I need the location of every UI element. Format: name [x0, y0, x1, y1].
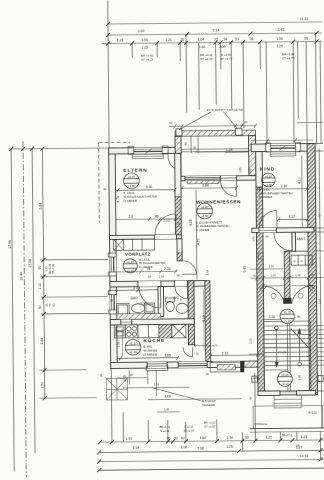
- svg-text:4.28: 4.28: [189, 219, 193, 226]
- entrance door right: [291, 286, 313, 304]
- VORPLATZ to WOHNEN door: [183, 261, 197, 275]
- terrace projection hatched band: [175, 130, 256, 136]
- svg-text:92: 92: [110, 298, 114, 302]
- svg-text:7.98: 7.98: [197, 447, 204, 451]
- svg-text:3.14: 3.14: [212, 28, 219, 32]
- X box: [172, 324, 186, 338]
- svg-text:+1.60: +1.60: [283, 319, 291, 323]
- svg-text:2.10: 2.10: [222, 351, 229, 355]
- svg-text:B: LINOL: B: LINOL: [259, 187, 271, 191]
- window in wohnen top wall: [185, 176, 221, 181]
- svg-text:3.23: 3.23: [248, 338, 252, 344]
- svg-text:88: 88: [155, 215, 159, 219]
- svg-text:D: ABRIEB: D: ABRIEB: [259, 195, 272, 199]
- svg-text:53: 53: [235, 37, 239, 41]
- svg-text:3.92: 3.92: [137, 29, 144, 33]
- svg-text:ST+2.35: ST+2.35: [51, 263, 55, 274]
- window opening in ELTERN top wall: [134, 147, 163, 153]
- WOHNEN terrace door swing: [220, 180, 236, 196]
- wohnen south window with radiator: [213, 361, 245, 367]
- ELTERN door: [155, 214, 176, 235]
- svg-text:95: 95: [297, 315, 301, 319]
- svg-text:1.91: 1.91: [126, 437, 133, 441]
- WC sink: [176, 303, 188, 313]
- svg-text:ALS NICHT: ALS NICHT: [202, 399, 216, 403]
- terrace door opening: [220, 176, 236, 181]
- bottom outside dims: [117, 377, 147, 379]
- party wall right: [307, 144, 317, 395]
- svg-text:1.53: 1.53: [133, 286, 140, 290]
- svg-text:+1.17: +1.17: [129, 341, 137, 345]
- svg-text:2.6: 2.6: [128, 215, 133, 219]
- svg-text:4.10: 4.10: [297, 177, 301, 184]
- svg-text:4.79: 4.79: [116, 196, 120, 203]
- svg-text:1.70: 1.70: [269, 264, 275, 268]
- svg-text:40: 40: [123, 374, 127, 378]
- svg-text:+2.10: +2.10: [281, 382, 289, 386]
- ELTERN right wall: [175, 153, 181, 197]
- svg-text:1.50: 1.50: [141, 38, 148, 42]
- svg-text:1.25: 1.25: [226, 445, 233, 449]
- meter boxes: [291, 255, 312, 265]
- VORPLATZ window left wall: [110, 254, 117, 276]
- svg-text:S +2.17: S +2.17: [184, 425, 194, 429]
- svg-text:ST+2.47: ST+2.47: [184, 429, 195, 433]
- BAD window left wall: [110, 291, 117, 313]
- svg-text:+1.20: +1.20: [129, 350, 137, 354]
- svg-text:+1.60: +1.60: [126, 269, 134, 273]
- arrows: [275, 329, 277, 366]
- svg-text:21: 21: [103, 187, 107, 191]
- svg-text:S +2.17: S +2.17: [160, 429, 170, 433]
- WC right hatched wall: [188, 281, 195, 345]
- svg-text:B+2.10: B+2.10: [308, 411, 317, 415]
- svg-text:D: ABRIEB: D: ABRIEB: [144, 352, 157, 356]
- svg-text:+3.25: +3.25: [281, 373, 289, 377]
- svg-text:62: 62: [181, 436, 185, 440]
- svg-text:ST +1.87: ST +1.87: [204, 424, 215, 428]
- svg-text:ELTERN: ELTERN: [123, 168, 147, 174]
- svg-text:G: G: [294, 259, 296, 263]
- svg-text:1.16: 1.16: [154, 383, 160, 387]
- svg-text:B: LINOL: B: LINOL: [124, 191, 136, 195]
- svg-text:+0.07: +0.07: [201, 205, 209, 209]
- BAD door: [139, 287, 161, 309]
- wohnen top wall: [181, 176, 256, 181]
- svg-text:26: 26: [123, 378, 127, 382]
- svg-text:1.60: 1.60: [199, 45, 206, 49]
- svg-text:94: 94: [224, 37, 228, 41]
- svg-text:1.50: 1.50: [227, 436, 234, 440]
- top wall left wing (ELTERN): [109, 147, 181, 154]
- KIND bottom wall: [252, 228, 314, 233]
- leaders nicht tragend top: [179, 112, 211, 130]
- svg-text:15.68: 15.68: [28, 259, 32, 268]
- svg-text:1.05: 1.05: [251, 236, 255, 242]
- ELTERN / VORPLATZ wall: [109, 235, 181, 240]
- svg-text:9.49: 9.49: [243, 266, 247, 273]
- svg-text:ST +4.70: ST +4.70: [282, 56, 295, 60]
- KIND door: [259, 210, 277, 228]
- svg-text:1.06: 1.06: [238, 167, 242, 173]
- svg-text:17.5/28: 17.5/28: [278, 351, 287, 354]
- svg-text:1.94: 1.94: [133, 446, 140, 450]
- svg-text:25: 25: [180, 38, 184, 42]
- svg-text:1.50: 1.50: [40, 382, 44, 389]
- svg-text:1.26: 1.26: [318, 298, 322, 304]
- circled digits hall: [271, 293, 276, 298]
- WOHNEN west wall: [205, 281, 211, 362]
- ABST west wall: [292, 232, 296, 251]
- svg-text:4.19: 4.19: [202, 315, 206, 322]
- svg-text:ABST.: ABST.: [296, 237, 306, 241]
- svg-text:1.21: 1.21: [266, 435, 273, 439]
- VORPLATZ wardrobe: [113, 239, 154, 250]
- svg-text:+1.60: +1.60: [128, 184, 136, 188]
- svg-text:90: 90: [38, 305, 42, 309]
- svg-text:45: 45: [311, 273, 315, 277]
- svg-text:1.21: 1.21: [117, 38, 124, 42]
- svg-text:1.50: 1.50: [276, 37, 283, 41]
- svg-text:2.06: 2.06: [181, 445, 188, 449]
- svg-text:45: 45: [253, 274, 257, 278]
- stair bottom wall: [258, 391, 280, 396]
- ABST bottom wall: [284, 250, 308, 252]
- svg-text:BR+0.12: BR+0.12: [160, 425, 171, 429]
- svg-text:60: 60: [169, 121, 173, 125]
- svg-text:96: 96: [245, 436, 249, 440]
- svg-text:1.50: 1.50: [164, 407, 170, 411]
- svg-text:90: 90: [265, 234, 269, 238]
- BAD washing machine: [117, 303, 130, 315]
- svg-text:62: 62: [148, 275, 152, 279]
- counter boxes: [138, 325, 159, 338]
- BAD sink: [132, 304, 145, 313]
- svg-text:+1.70: +1.70: [283, 310, 291, 314]
- svg-text:20: 20: [318, 213, 322, 217]
- svg-text:KIND: KIND: [260, 166, 275, 172]
- svg-text:1.18: 1.18: [177, 222, 181, 228]
- svg-text:90: 90: [177, 273, 181, 277]
- svg-text:1.25: 1.25: [141, 46, 148, 50]
- svg-text:5.84: 5.84: [38, 203, 42, 210]
- svg-text:WC: WC: [173, 296, 179, 300]
- svg-text:B: PVC: B: PVC: [144, 345, 153, 349]
- svg-text:+1.60: +1.60: [201, 214, 209, 218]
- svg-text:BR +1.10: BR +1.10: [204, 420, 216, 424]
- svg-text:+1.67: +1.67: [126, 260, 134, 264]
- svg-text:Kamin(?): Kamin(?): [206, 343, 217, 347]
- svg-text:ST +4.70: ST +4.70: [200, 57, 213, 61]
- WC toilet: [166, 298, 175, 302]
- svg-text:BR+1.35: BR+1.35: [48, 263, 52, 274]
- svg-text:45: 45: [206, 372, 210, 376]
- main inner bearing wall (stair west): [256, 152, 263, 188]
- svg-text:74: 74: [146, 267, 150, 271]
- svg-text:2.64: 2.64: [40, 338, 44, 345]
- svg-text:+0.07: +0.07: [265, 174, 273, 178]
- vestibule center wall: [284, 251, 290, 303]
- entrance outside steps: [274, 395, 302, 408]
- dashed overhang top-left: [99, 141, 130, 143]
- svg-text:2.10: 2.10: [281, 184, 288, 188]
- diagonal cut: [291, 329, 311, 350]
- svg-text:90: 90: [99, 374, 103, 378]
- svg-text:ST +4.77: ST +4.77: [220, 57, 233, 61]
- svg-text:16.46: 16.46: [19, 272, 23, 281]
- svg-text:3.85: 3.85: [164, 353, 171, 357]
- svg-text:W: RAUHFASER-TAP.: W: RAUHFASER-TAP.: [139, 261, 166, 265]
- svg-text:2.55: 2.55: [116, 341, 120, 347]
- svg-text:W: ABRIEB: W: ABRIEB: [144, 348, 158, 352]
- svg-text:17.96: 17.96: [8, 240, 12, 249]
- mirror unit fragments beyond party wall: [315, 142, 323, 144]
- BAD tub band: [117, 314, 161, 320]
- svg-text:2.28: 2.28: [226, 148, 233, 152]
- svg-text:1.12: 1.12: [288, 215, 295, 219]
- svg-text:25: 25: [45, 303, 49, 307]
- svg-text:1.20: 1.20: [297, 375, 301, 381]
- svg-text:2.15: 2.15: [140, 302, 147, 306]
- svg-text:96: 96: [166, 436, 170, 440]
- stove 4 circles: [125, 325, 138, 338]
- kitchen door swing: [183, 347, 193, 357]
- VORPLATZ / BAD wall + WC top: [110, 281, 194, 287]
- svg-text:12: 12: [174, 436, 178, 440]
- svg-text:B: LINOL: B: LINOL: [139, 258, 151, 262]
- svg-text:1.23: 1.23: [301, 435, 308, 439]
- KIND window radiator: [270, 152, 296, 156]
- svg-text:TRAGEND: TRAGEND: [202, 403, 215, 407]
- svg-text:90: 90: [249, 396, 253, 400]
- svg-text:60: 60: [244, 120, 248, 124]
- svg-text:77: 77: [48, 303, 52, 307]
- svg-text:1.10: 1.10: [38, 283, 42, 290]
- svg-text:1.93: 1.93: [159, 274, 165, 278]
- left exterior wall: [109, 148, 118, 368]
- svg-text:+1.60: +1.60: [265, 183, 273, 187]
- VORPLATZ right wall: [177, 239, 182, 261]
- svg-text:D: ABRIEB: D: ABRIEB: [124, 199, 137, 203]
- svg-text:VORDACH: VORDACH: [254, 422, 268, 426]
- svg-text:65: 65: [184, 142, 188, 146]
- svg-text:90: 90: [130, 373, 134, 377]
- terrace edge lines: [181, 148, 248, 151]
- hatch box: [159, 324, 172, 338]
- entrance door left: [262, 286, 284, 304]
- svg-text:2.00: 2.00: [219, 45, 226, 49]
- svg-text:22.5 NICHT TRAGEND: 22.5 NICHT TRAGEND: [207, 108, 244, 112]
- svg-text:G: G: [301, 259, 303, 263]
- svg-text:ST +4.27: ST +4.27: [141, 58, 154, 62]
- svg-text:1.64: 1.64: [198, 38, 205, 42]
- canopy: [253, 405, 323, 428]
- svg-text:1.25: 1.25: [44, 266, 48, 272]
- svg-text:90: 90: [38, 266, 42, 270]
- bottom wall: kitchen + wohnen: [111, 361, 261, 368]
- ELTERN window radiator: [133, 154, 164, 159]
- svg-text:1.60: 1.60: [200, 436, 207, 440]
- svg-text:2.88: 2.88: [202, 184, 209, 188]
- svg-text:4.70: 4.70: [196, 238, 200, 245]
- WC door: [175, 286, 188, 299]
- BAD / WC wall: [158, 286, 164, 316]
- kamin leader: [194, 344, 206, 347]
- svg-text:3.17: 3.17: [296, 446, 303, 450]
- svg-text:1.20: 1.20: [295, 273, 301, 277]
- svg-text:95: 95: [304, 37, 308, 41]
- svg-text:3.00: 3.00: [164, 395, 171, 399]
- svg-text:W: RAUHFASER-TAPETEN: W: RAUHFASER-TAPETEN: [259, 191, 293, 195]
- svg-text:2.03: 2.03: [205, 269, 209, 275]
- svg-text:B: EICHEN PARKETT: B: EICHEN PARKETT: [196, 220, 223, 224]
- svg-text:BR+2.12: BR+2.12: [282, 433, 293, 437]
- svg-text:2.16: 2.16: [268, 315, 275, 319]
- svg-text:2.03: 2.03: [163, 218, 170, 222]
- BAD / KUECHE wall: [110, 319, 194, 325]
- BAD shower: [145, 303, 155, 313]
- svg-text:VORPLATZ: VORPLATZ: [125, 252, 151, 257]
- svg-text:21.21: 21.21: [300, 17, 309, 21]
- bottom-left outside boxes: [106, 378, 127, 400]
- svg-text:95: 95: [250, 37, 254, 41]
- svg-text:1.20: 1.20: [271, 273, 277, 277]
- svg-text:BAD: BAD: [131, 296, 139, 300]
- svg-text:W: RAUHFASER-TAPETEN: W: RAUHFASER-TAPETEN: [196, 224, 230, 228]
- KIND top wall: [251, 144, 313, 152]
- svg-text:3.30: 3.30: [146, 185, 153, 189]
- svg-text:62: 62: [52, 303, 56, 307]
- svg-text:12: 12: [214, 37, 218, 41]
- svg-text:1.25: 1.25: [276, 44, 283, 48]
- svg-text:1.05: 1.05: [248, 168, 252, 174]
- svg-text:D: ABRIEB: D: ABRIEB: [196, 228, 209, 232]
- leader nicht tragend bottom: [153, 388, 200, 401]
- svg-text:95: 95: [193, 146, 197, 150]
- ELTERN corner swing: [168, 154, 175, 168]
- ABST door: [274, 233, 292, 251]
- svg-text:+0.07: +0.07: [128, 175, 136, 179]
- svg-text:1.21: 1.21: [165, 38, 172, 42]
- svg-text:42/26: 42/26: [253, 376, 260, 380]
- svg-text:75: 75: [196, 352, 200, 356]
- svg-text:2.03: 2.03: [164, 267, 171, 271]
- svg-text:W: RAUHFASER/TAPETEN: W: RAUHFASER/TAPETEN: [124, 194, 157, 198]
- svg-text:14.51: 14.51: [300, 454, 309, 458]
- kitchen counter: sink unit: [114, 325, 125, 338]
- svg-text:3.42: 3.42: [277, 28, 284, 32]
